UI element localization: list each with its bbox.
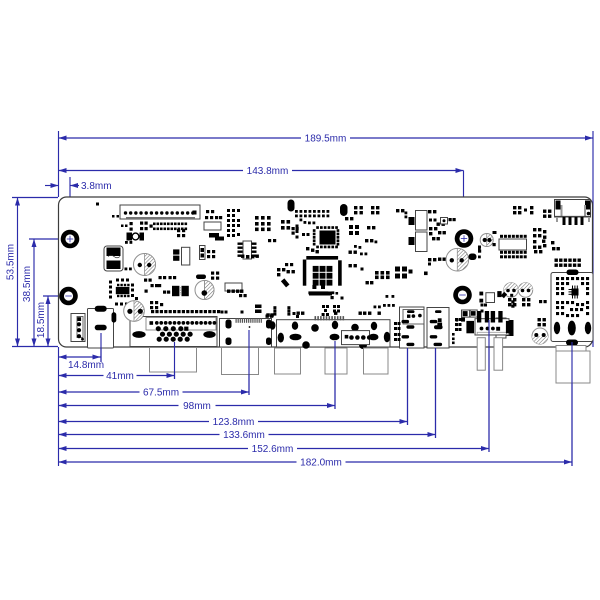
dimension 182.0mm (DC jack)	[59, 458, 573, 469]
USB connector J8	[466, 311, 513, 335]
mounting hole H3	[455, 229, 474, 248]
LVDS connector CN1	[120, 205, 200, 219]
bus bar above AV	[309, 285, 332, 296]
electrolytic capacitor C7	[518, 283, 532, 297]
pad row D1	[295, 210, 329, 217]
ferrite bead FB1	[215, 237, 224, 241]
extension line overlay audio jack	[100, 333, 102, 362]
IC U3 (DIP footprint)	[499, 235, 527, 258]
passives on J9 lower	[556, 301, 589, 317]
electrolytic capacitor C4	[195, 281, 214, 300]
passives cluster C2 (dense column)	[227, 209, 240, 237]
passives left of U1	[296, 225, 310, 239]
passives cluster F4	[513, 206, 551, 218]
DC jack shell step	[556, 346, 586, 352]
svg-text:123.8mm: 123.8mm	[213, 417, 255, 428]
mounting hole H4	[453, 286, 472, 305]
passives E14	[349, 251, 374, 285]
crystal Y1 with pads	[225, 283, 247, 297]
passives right of C4	[211, 272, 219, 280]
pads left of LVDS	[96, 203, 119, 218]
passives right of C2	[150, 301, 163, 309]
passives G4 (above Q2)	[538, 318, 546, 326]
passives E13	[374, 295, 395, 308]
passives E3	[345, 217, 353, 220]
svg-text:18.5mm: 18.5mm	[36, 302, 47, 338]
passives cluster F3 (pad rows)	[555, 259, 581, 267]
passives F5	[478, 231, 496, 251]
4-pin header J1	[71, 314, 85, 342]
extension line USB center	[488, 335, 490, 452]
svg-text:182.0mm: 182.0mm	[300, 458, 342, 469]
transistor Q1	[478, 231, 497, 249]
dimension 123.8mm	[59, 417, 408, 428]
passives cluster F1	[533, 228, 546, 253]
crystal pill X2	[340, 204, 348, 216]
dimension 3.8mm (edge to hole)	[45, 181, 112, 192]
SOT U11 with box	[173, 247, 190, 265]
diode D4 (rotated)	[281, 278, 290, 287]
electrolytic capacitor C6	[504, 283, 518, 297]
extension line left board edge (vertical)	[58, 131, 60, 466]
extension line HDMI center	[248, 333, 250, 395]
svg-text:3.8mm: 3.8mm	[81, 181, 112, 192]
passives E8	[396, 209, 407, 218]
extension line DC jack center	[571, 342, 573, 466]
dimension 189.5mm (overall width)	[59, 134, 594, 145]
passives D3	[277, 263, 295, 276]
pill on J9 bottom	[566, 340, 578, 346]
diode pair D7	[172, 286, 189, 296]
mounting hole H1	[61, 230, 80, 249]
electrolytic capacitor C2	[124, 301, 145, 322]
extension line overlay DC jack	[571, 342, 573, 466]
passives cluster B	[144, 276, 176, 294]
power inductor L1	[104, 246, 123, 271]
dimension 67.5mm (HDMI)	[59, 388, 250, 399]
passives E2	[371, 206, 379, 214]
transistor Q2	[532, 328, 548, 344]
passives E9	[428, 210, 446, 240]
connector J6	[400, 307, 425, 348]
regulator U5 with resistor field	[109, 279, 138, 306]
passives above HDMI	[221, 311, 274, 318]
svg-text:53.5mm: 53.5mm	[6, 244, 17, 280]
LVDS pad field	[153, 223, 187, 231]
svg-text:143.8mm: 143.8mm	[247, 166, 289, 177]
SMD electrolytic footprint C10	[416, 211, 428, 231]
extension line overlay VGA	[174, 342, 176, 379]
passives cluster E12 (large pads)	[395, 267, 413, 279]
extension line hole H2 horizontal	[43, 295, 70, 297]
svg-text:38.5mm: 38.5mm	[22, 266, 33, 302]
passives E1	[354, 206, 363, 214]
dimension 53.5mm (board height)	[6, 198, 21, 347]
passives G1 (2x2 under C6)	[508, 298, 516, 306]
DC jack pin left	[554, 322, 560, 334]
pill on J9 top edge	[567, 270, 579, 276]
passives D5	[306, 247, 319, 253]
inductor pill E16	[469, 250, 482, 261]
passives near L1	[125, 241, 133, 270]
AV shell 3 (below board)	[364, 348, 389, 374]
passives G2 (2x2 under C7)	[522, 298, 530, 306]
capacitor C8 footprint	[496, 318, 514, 338]
AV shell 1 (below board)	[275, 348, 301, 374]
USB shell legs (below board)	[477, 338, 502, 371]
electrolytic capacitor C5 (large)	[446, 248, 469, 271]
passives above AV right	[322, 305, 340, 316]
HDMI shell (below board)	[222, 348, 259, 375]
DC jack pin right	[585, 322, 591, 334]
oval pad left of AV block	[270, 321, 276, 329]
passives cluster E11	[375, 271, 390, 279]
SMD electrolytic footprint C11	[416, 232, 428, 252]
passives cluster R-field A	[177, 229, 185, 237]
extension line overlay USB	[488, 320, 490, 452]
passives H2 (above USB)	[479, 291, 514, 312]
passives E10	[424, 258, 446, 276]
passives pair C5	[268, 239, 276, 242]
IC U2 (QFP)	[313, 226, 340, 248]
svg-text:133.6mm: 133.6mm	[223, 430, 265, 441]
scaler SoC U1 (BGA)	[303, 256, 342, 295]
passives E6	[365, 239, 377, 243]
dimension 14.8mm (audio jack)	[59, 355, 105, 372]
connector footprint J10	[200, 246, 216, 260]
IC U8 (small QFP on J9)	[569, 286, 579, 299]
dimension 143.8mm (to right mount hole)	[59, 166, 464, 177]
extension line board top-left	[12, 197, 58, 199]
transistor Q3	[409, 217, 415, 245]
extension line board bottom-left	[12, 346, 58, 348]
extension line overlay HDMI	[248, 330, 250, 395]
svg-text:189.5mm: 189.5mm	[305, 134, 347, 145]
passives cluster C3 (3x3)	[255, 216, 271, 231]
passives cluster C1	[205, 210, 222, 219]
diode D6 with box	[441, 218, 456, 225]
extension line overlay J7	[435, 348, 437, 438]
svg-text:67.5mm: 67.5mm	[143, 388, 179, 399]
audio jack J2	[88, 306, 117, 348]
svg-text:14.8mm: 14.8mm	[68, 360, 104, 371]
extension line overlay J6	[407, 348, 409, 425]
backlight connector CN2	[555, 200, 591, 226]
extension line mount hole H1 (vertical)	[69, 177, 71, 238]
passives left of pad field	[121, 222, 153, 231]
dimension 152.6mm (USB)	[59, 444, 490, 455]
passives cluster C4	[281, 220, 299, 235]
passives D2	[300, 219, 316, 225]
tantalum capacitor C20	[127, 233, 145, 241]
svg-text:98mm: 98mm	[183, 401, 211, 412]
inductor pill above C4	[196, 275, 206, 280]
dimension 18.5mm (hole2 to bottom)	[36, 296, 51, 347]
passives E15	[331, 296, 344, 300]
passives H1 (left of USB)	[456, 310, 478, 331]
dimension 38.5mm (hole1 to bottom)	[22, 239, 37, 347]
dimension 98mm (AV block)	[59, 401, 336, 412]
extension line hole H1 horizontal	[29, 238, 70, 240]
dimension 133.6mm	[59, 430, 436, 441]
extension line connector J7	[435, 330, 437, 438]
passives column left of J6	[394, 322, 401, 341]
svg-text:152.6mm: 152.6mm	[252, 444, 294, 455]
SOIC footprint above AV	[255, 305, 299, 319]
dimension 41mm (VGA)	[59, 371, 175, 382]
mounting hole H2	[59, 287, 78, 306]
extension line VGA center	[174, 333, 176, 379]
VGA shell (below board)	[150, 348, 197, 373]
extension line 143.8mm to mount hole H3	[463, 171, 465, 237]
DC jack pin center	[568, 321, 576, 336]
extension line connector J6	[407, 330, 409, 425]
AV connector block J5	[277, 312, 391, 350]
extension line right board edge (vertical)	[592, 131, 594, 347]
electrolytic capacitor C1	[134, 254, 156, 276]
passives right of J7	[452, 318, 462, 344]
crystal pill X1	[288, 200, 295, 212]
passives E5	[367, 226, 375, 229]
extension line audio jack	[100, 334, 102, 362]
VGA connector J3	[130, 310, 220, 347]
AV shell 2 (below board)	[325, 348, 347, 374]
passives F2	[551, 241, 560, 250]
svg-text:41mm: 41mm	[106, 371, 134, 382]
HDMI connector J4	[220, 318, 272, 347]
extension line overlay AV block	[334, 341, 336, 409]
extension line AV block center	[334, 340, 336, 409]
passives E7	[354, 245, 367, 255]
passives G3	[539, 300, 547, 303]
PCB board outline	[59, 197, 593, 347]
DC jack shell body	[556, 351, 590, 383]
connector J7	[427, 308, 449, 349]
op-amp U7 (SOIC-8)	[238, 241, 259, 259]
power connector block J9 outline	[551, 273, 593, 342]
passives E4 (2x2 large)	[349, 225, 359, 235]
passives on J9 upper	[556, 277, 589, 295]
IC U6 outline	[204, 222, 221, 238]
